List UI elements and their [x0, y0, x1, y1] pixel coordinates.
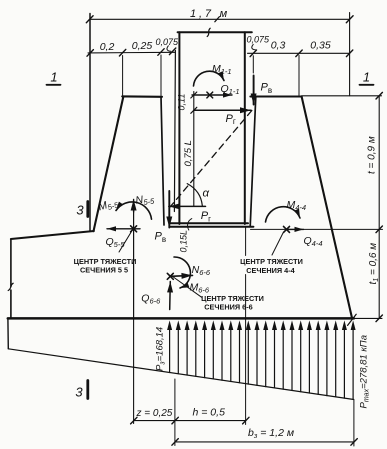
force N6-6 arrow: [170, 274, 192, 277]
section mark 3 (upper): [76, 202, 87, 218]
svg-text:1,7 м: 1,7 м: [190, 8, 230, 20]
dimension 1,7 м: [86, 8, 353, 23]
angle alpha arc: [187, 184, 202, 206]
N5-5 arrowhead up: [133, 200, 135, 213]
svg-text:0,3: 0,3: [271, 40, 286, 52]
svg-text:СЕЧЕНИЯ 4-4: СЕЧЕНИЯ 4-4: [246, 266, 295, 275]
moment M4-4 arc: [266, 207, 301, 222]
text centroid 6-6: [201, 294, 264, 312]
footing bottom line: [8, 317, 354, 320]
svg-text:α: α: [203, 187, 210, 199]
node X at section 4-4 centroid: [284, 226, 290, 232]
wall front face (left vertical): [89, 14, 91, 232]
extension line at centroid 4-4 level: [251, 228, 383, 230]
svg-text:0,075: 0,075: [156, 37, 180, 47]
force Pг (top) arrow: [194, 109, 251, 111]
footing left edge with break: [8, 239, 13, 318]
force Q4-4 arrow: [287, 228, 304, 230]
dimension line t / t1 (right): [376, 92, 382, 321]
svg-text:0,11: 0,11: [177, 94, 187, 111]
extension line right of 1,7 м: [349, 13, 351, 96]
moment M1-1 arc: [194, 71, 225, 86]
extension line at x=353.9: [353, 400, 355, 446]
svg-text:ЦЕНТР ТЯЖЕСТИ: ЦЕНТР ТЯЖЕСТИ: [74, 257, 137, 266]
force Pг (bottom) arrow: [169, 205, 206, 207]
soil pressure arrows: [170, 328, 354, 400]
section mark 1 (right): [360, 70, 374, 85]
svg-text:1: 1: [50, 70, 57, 85]
section mark 3 (lower): [75, 381, 87, 400]
corner tick at slope bottom: [348, 314, 357, 325]
svg-text:t = 0,9 м: t = 0,9 м: [367, 136, 378, 174]
dimension line bз = 1,2 м: [172, 439, 357, 446]
stem left edge: [178, 32, 180, 224]
force Q1-1 arrow: [192, 94, 232, 96]
extension line z (c.g. 5-5): [133, 318, 135, 423]
leader centroid 4-4: [272, 233, 283, 255]
right trapezoid left edge: [250, 97, 256, 227]
force Q6-6 arrow: [169, 282, 172, 310]
footing bottom extension to dimension line: [354, 317, 382, 319]
left trapezoid sloped face: [94, 96, 124, 231]
moment M5-5 arc: [116, 202, 152, 219]
svg-text:0,075: 0,075: [247, 35, 271, 45]
svg-text:z = 0,25: z = 0,25: [136, 408, 173, 419]
stem right edge: [244, 32, 246, 224]
inner face line: [174, 51, 175, 212]
force N5-5 vertical line: [133, 206, 135, 318]
dimension line z / h: [131, 417, 249, 424]
leader centroid 5-5: [119, 232, 132, 253]
pressure arrowheads touch base: [167, 320, 356, 330]
text centroid 5-5: [74, 257, 137, 275]
svg-text:0,2: 0,2: [100, 41, 115, 53]
svg-text:0,75 L: 0,75 L: [183, 140, 194, 166]
footing step line: [11, 231, 94, 239]
right trapezoid top edge: [250, 95, 301, 97]
dimension 0,11 vertical line: [191, 92, 197, 114]
stem top edge with break: [178, 28, 252, 36]
extension line at x=174.9: [174, 379, 176, 446]
svg-text:3: 3: [76, 203, 84, 218]
node X on Q1-1: [207, 92, 213, 98]
dimension row 0,075 / 0,3 / 0,35: [247, 35, 353, 96]
dashed resultant line: [169, 111, 252, 208]
moment M6-6 arc: [174, 257, 190, 288]
right trapezoid sloped face: [302, 97, 352, 319]
left trapezoid top edge: [122, 95, 162, 98]
soil pressure envelope (sloped line): [8, 349, 354, 400]
node X at section 5-5 centroid: [131, 226, 137, 232]
dimension 0,75L vertical line: [193, 110, 195, 206]
text centroid 4-4: [240, 257, 303, 275]
leader centroid 6-6: [173, 277, 201, 297]
extension line at x=245.6: [245, 227, 247, 425]
svg-text:ЦЕНТР ТЯЖЕСТИ: ЦЕНТР ТЯЖЕСТИ: [240, 257, 303, 266]
svg-text:0,15L: 0,15L: [179, 230, 189, 253]
svg-text:СЕЧЕНИЯ 5 5: СЕЧЕНИЯ 5 5: [80, 266, 128, 275]
svg-text:0,25: 0,25: [132, 40, 153, 52]
left trapezoid right edge: [161, 97, 164, 225]
dimension row 0,2 / 0,25 / 0,075: [87, 37, 179, 96]
svg-text:1: 1: [363, 70, 370, 85]
ledge top lines at stem bottom: [170, 223, 254, 227]
section mark 1 (left): [47, 70, 61, 85]
leader hook for 0,15L: [188, 219, 192, 230]
force Pв (right) down arrow: [253, 76, 255, 105]
node X at section 6-6 centroid: [167, 273, 173, 279]
svg-text:3: 3: [75, 385, 83, 400]
svg-text:h = 0,5: h = 0,5: [193, 406, 226, 418]
svg-text:0,35: 0,35: [310, 40, 331, 52]
force Pв (left) down arrow: [168, 191, 170, 228]
top connector line to right dimension: [302, 95, 382, 97]
svg-text:t1 = 0,6 м: t1 = 0,6 м: [368, 243, 380, 285]
force Q5-5 arrow: [107, 228, 140, 230]
footing lower-left corner edge: [7, 318, 9, 348]
